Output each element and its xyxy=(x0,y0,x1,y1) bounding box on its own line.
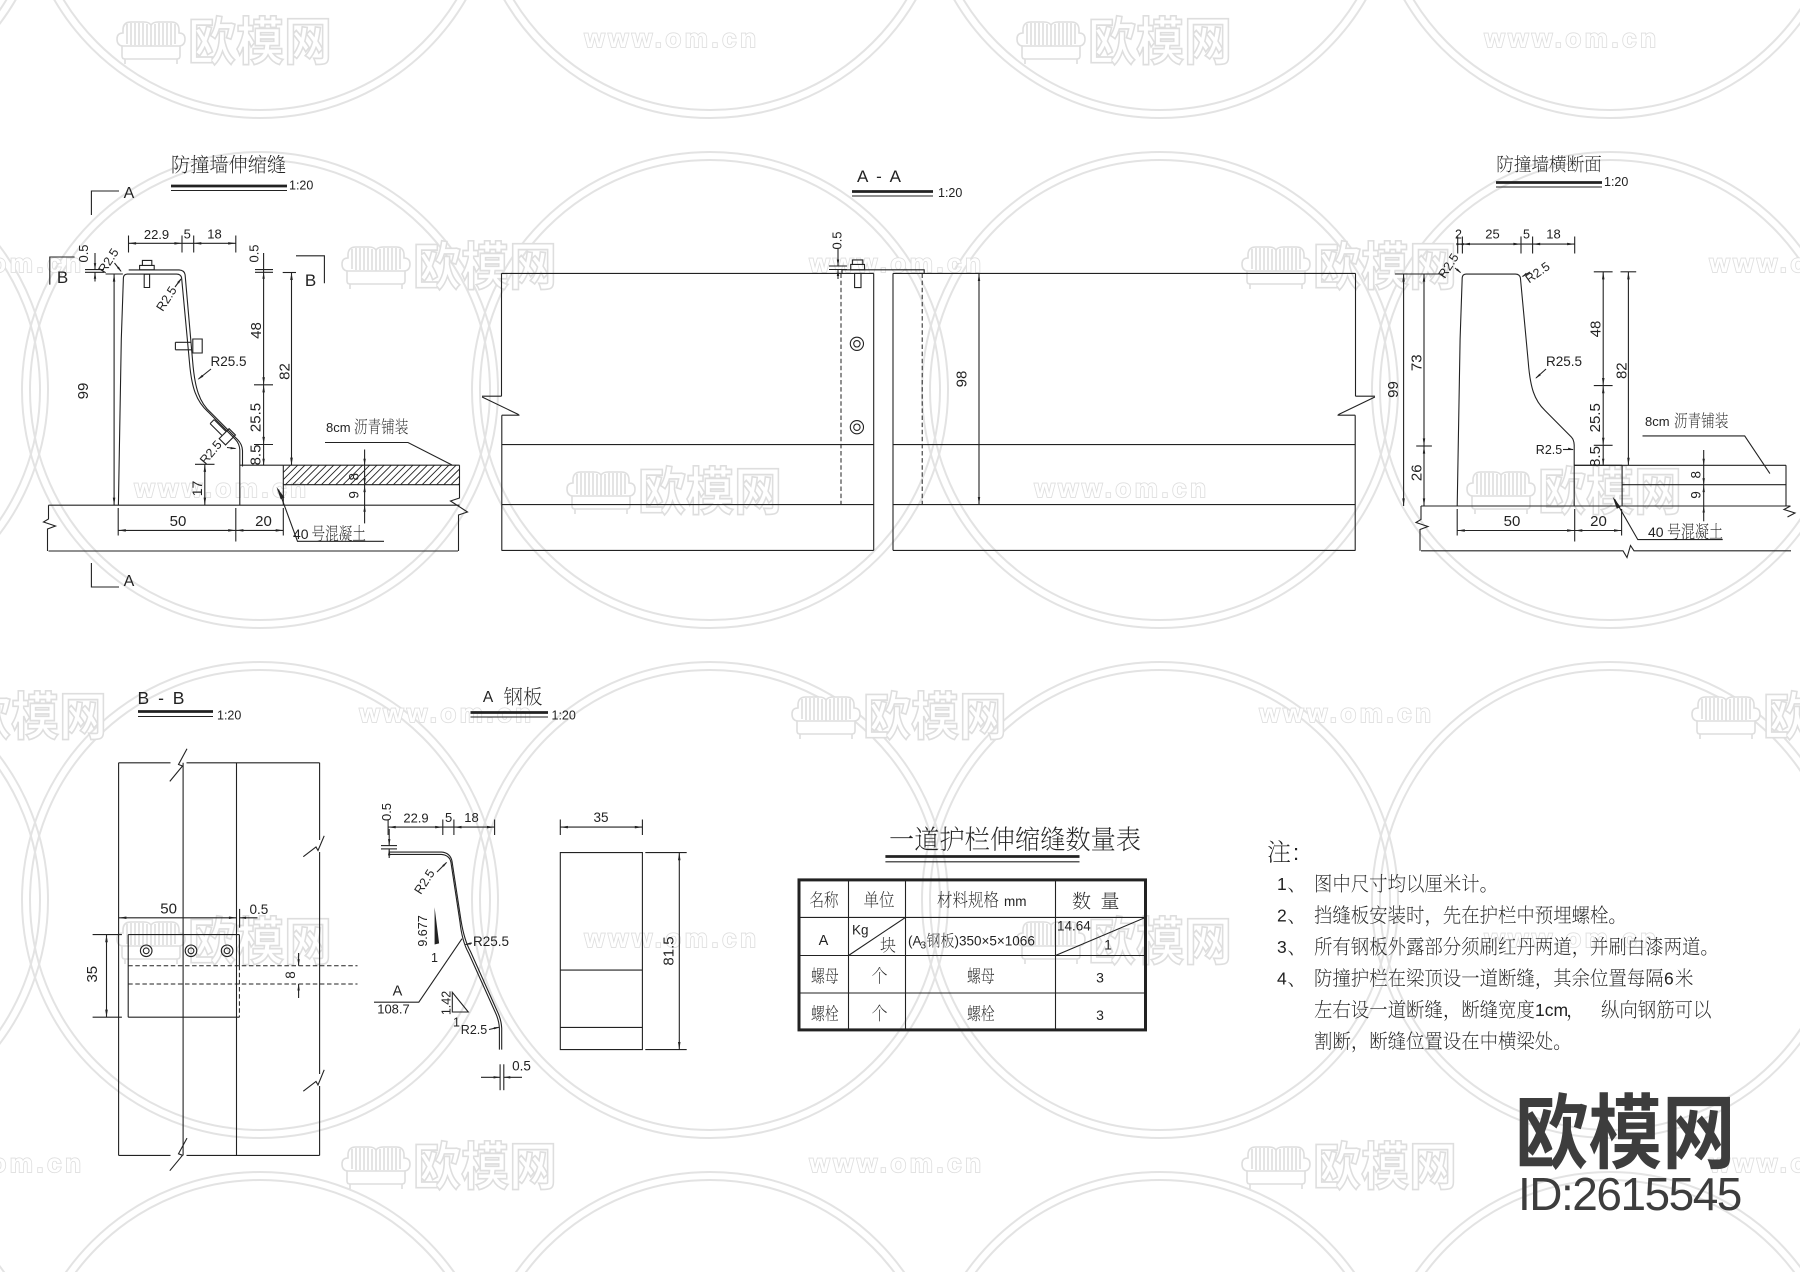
fig1 asphalt hatching xyxy=(283,465,459,485)
svg-text:48: 48 xyxy=(248,322,265,339)
fig3 dim 50/20 bottom xyxy=(1457,530,1621,532)
svg-text:98: 98 xyxy=(953,371,970,388)
svg-text:A: A xyxy=(819,933,829,949)
fig1 section mark B right xyxy=(296,256,324,283)
fig5 dim 0.5 bottom xyxy=(499,1064,501,1090)
svg-text:17: 17 xyxy=(189,481,205,497)
svg-text:0.5: 0.5 xyxy=(379,803,394,821)
fig1 title 防撞墙伸缩缝 xyxy=(173,155,286,174)
fig5 dim 81.5 xyxy=(678,853,680,1050)
svg-text:9.677: 9.677 xyxy=(416,915,430,946)
fig4 hidden deck edges (dashed) xyxy=(128,965,357,967)
fig2 hidden anchor plate edges (dashed) xyxy=(840,274,842,505)
svg-text:1:20: 1:20 xyxy=(938,186,962,200)
svg-text:ID:2615545: ID:2615545 xyxy=(1518,1168,1741,1220)
fig3 title 防撞墙横断面 xyxy=(1498,155,1601,172)
svg-text:8.5: 8.5 xyxy=(247,445,264,466)
note 4 line 3 xyxy=(1315,1031,1559,1052)
svg-text:3: 3 xyxy=(921,941,927,952)
table row 螺母 xyxy=(811,968,838,984)
svg-text:9: 9 xyxy=(1689,491,1704,499)
svg-text:0.5: 0.5 xyxy=(250,902,269,917)
svg-text:20: 20 xyxy=(255,513,272,530)
svg-text:www.om.cn: www.om.cn xyxy=(1259,698,1435,728)
fig4 steel plate xyxy=(128,935,239,1018)
fig1 dim 8.5 xyxy=(263,445,265,466)
fig1 wall step ledge xyxy=(240,464,283,466)
svg-text:www.om.cn: www.om.cn xyxy=(0,1148,85,1178)
svg-text:1: 1 xyxy=(1104,938,1112,953)
fig1 dim 25.5 xyxy=(263,385,265,445)
svg-text:8cm: 8cm xyxy=(326,420,351,435)
fig4 dim 35 xyxy=(106,935,108,1018)
svg-text:R2.5: R2.5 xyxy=(1536,443,1562,457)
svg-text:(A: (A xyxy=(908,934,922,949)
svg-text:18: 18 xyxy=(1546,227,1560,242)
fig1 section mark A bottom xyxy=(91,563,119,587)
fig5 dim 22.9/5/18 xyxy=(388,826,495,828)
svg-text:www.om.cn: www.om.cn xyxy=(809,1148,985,1178)
fig3 dim 73 xyxy=(1423,274,1425,446)
svg-text:73: 73 xyxy=(1408,354,1425,371)
svg-text:A: A xyxy=(124,185,135,202)
fig4 break right lower xyxy=(303,1070,324,1091)
fig2 joint cover plate xyxy=(842,270,924,274)
fig1 section mark A top xyxy=(91,191,119,215)
svg-text:A - A: A - A xyxy=(857,167,903,186)
svg-text:8: 8 xyxy=(346,473,361,481)
fig1 dim 22.9/5/18 top xyxy=(129,242,236,244)
svg-text:mm: mm xyxy=(1004,894,1027,909)
fig1 dim 82 xyxy=(291,272,293,465)
notes header 注: xyxy=(1268,840,1290,863)
fig2 dim 98 xyxy=(978,273,980,504)
svg-text:26: 26 xyxy=(1408,464,1425,481)
svg-text:B: B xyxy=(57,268,68,287)
svg-text:5: 5 xyxy=(445,810,452,825)
fig5 bent plate profile (double line) xyxy=(389,852,502,1050)
svg-text:1.42: 1.42 xyxy=(439,991,453,1015)
svg-text:www.om.cn: www.om.cn xyxy=(1484,23,1660,53)
fig1 steel cover plate (section) xyxy=(129,270,243,467)
svg-text:3: 3 xyxy=(1277,937,1287,957)
svg-text:1:20: 1:20 xyxy=(1604,175,1628,189)
svg-text:20: 20 xyxy=(1590,513,1607,530)
fig1 section mark B left xyxy=(50,257,75,285)
svg-text:3: 3 xyxy=(1096,970,1104,986)
table diagonal splits xyxy=(849,917,906,955)
fig5 slope mark 9.677:1 xyxy=(435,907,440,944)
svg-text:108.7: 108.7 xyxy=(377,1002,410,1017)
svg-text:6: 6 xyxy=(1664,969,1674,989)
svg-text::: : xyxy=(1293,840,1299,865)
fig1 anchor bolt lower (on slope) xyxy=(207,417,235,445)
fig3 wall outline xyxy=(1457,274,1574,506)
svg-text:8.5: 8.5 xyxy=(1587,446,1604,467)
svg-text:25.5: 25.5 xyxy=(1587,403,1604,432)
svg-text:50: 50 xyxy=(160,901,177,918)
fig2 deck left block xyxy=(502,273,874,550)
fig1 dim 99 xyxy=(113,274,115,505)
svg-text:1:20: 1:20 xyxy=(289,179,313,193)
svg-text:B - B: B - B xyxy=(138,688,187,708)
fig1 anchor bolt middle xyxy=(175,339,202,353)
fig5 plate front view xyxy=(560,853,642,1050)
svg-text:0.5: 0.5 xyxy=(830,231,845,249)
fig2 bolt at joint xyxy=(851,260,865,288)
svg-text:48: 48 xyxy=(1588,321,1605,338)
fig3 dim 82 xyxy=(1627,272,1629,466)
fig4 break right upper xyxy=(303,836,324,857)
fig1 dim 17 xyxy=(204,464,206,505)
svg-text:5: 5 xyxy=(184,227,191,242)
svg-text:www.om.cn: www.om.cn xyxy=(1709,248,1800,278)
svg-text:www.om.cn: www.om.cn xyxy=(1034,473,1210,503)
svg-text:R25.5: R25.5 xyxy=(473,934,509,949)
svg-text:www.om.cn: www.om.cn xyxy=(0,248,85,278)
svg-text:40: 40 xyxy=(1648,524,1664,540)
svg-text:50: 50 xyxy=(170,513,187,530)
svg-text:0.5: 0.5 xyxy=(76,244,91,262)
svg-text:A: A xyxy=(483,689,494,706)
fig2 deck right block xyxy=(893,273,1356,550)
note 4 line 2 xyxy=(1315,1000,1534,1021)
fig3 dim 8/9 right xyxy=(1703,450,1705,521)
svg-text:5: 5 xyxy=(1523,228,1530,242)
svg-text:R25.5: R25.5 xyxy=(210,354,246,369)
svg-text:35: 35 xyxy=(84,966,101,983)
svg-text:25: 25 xyxy=(1485,227,1499,242)
svg-text:1: 1 xyxy=(1277,874,1287,894)
svg-text:8: 8 xyxy=(283,971,298,979)
svg-text:18: 18 xyxy=(207,227,221,242)
svg-text:A: A xyxy=(124,573,135,590)
fig4 break top xyxy=(170,749,187,782)
svg-text:0.5: 0.5 xyxy=(512,1059,531,1074)
svg-text:3: 3 xyxy=(1096,1007,1104,1023)
fig4 break bottom xyxy=(170,1138,187,1171)
fig1 dim 8/9 asphalt layers xyxy=(364,450,366,524)
fig1 anchor bolt top xyxy=(140,260,155,287)
svg-text:4: 4 xyxy=(1277,969,1287,989)
fig3 dim 26 xyxy=(1423,446,1425,506)
svg-text:14.64: 14.64 xyxy=(1057,919,1091,934)
fig1 wall concrete outline xyxy=(118,274,239,505)
svg-text:18: 18 xyxy=(464,810,478,825)
svg-text:R2.5: R2.5 xyxy=(461,1023,487,1037)
fig3 asphalt pavement xyxy=(1574,465,1786,506)
svg-text:A: A xyxy=(393,984,403,1000)
fig1 dim 48 xyxy=(263,253,265,385)
table grid xyxy=(799,880,1146,1030)
svg-text:Kg: Kg xyxy=(852,923,869,938)
site logo 欧模网 xyxy=(1520,1092,1730,1170)
fig4 dim 50 xyxy=(119,917,237,919)
fig4 wall plan outline xyxy=(119,763,320,1156)
svg-text:81.5: 81.5 xyxy=(660,936,677,965)
fig4 wall joint lines xyxy=(182,763,184,1156)
svg-text:82: 82 xyxy=(1613,362,1630,379)
fig3 dim 2/25/5/18 top xyxy=(1458,243,1575,245)
fig3 dim 8.5 xyxy=(1602,445,1604,465)
fig1 asphalt pavement block xyxy=(283,465,459,505)
svg-text:9: 9 xyxy=(346,491,361,499)
fig1 concrete base xyxy=(49,504,460,506)
svg-text:8cm: 8cm xyxy=(1645,414,1670,429)
fig3 concrete base xyxy=(1421,505,1791,507)
svg-text:www.om.cn: www.om.cn xyxy=(584,23,760,53)
fig3 dim 25.5 xyxy=(1602,386,1604,446)
svg-text:1:20: 1:20 xyxy=(217,709,241,723)
svg-text:99: 99 xyxy=(1385,381,1402,398)
fig5 slope mark 1.42:1 xyxy=(452,992,468,1012)
svg-text:1: 1 xyxy=(431,951,438,965)
svg-text:R25.5: R25.5 xyxy=(1546,354,1582,369)
svg-text:25.5: 25.5 xyxy=(247,403,264,432)
svg-text:1:20: 1:20 xyxy=(552,709,576,723)
fig3 dim 99 xyxy=(1403,274,1405,506)
svg-text:1: 1 xyxy=(453,1016,460,1030)
fig4 dim 0.5 xyxy=(239,909,241,928)
svg-text:82: 82 xyxy=(276,363,293,380)
table header row xyxy=(810,891,838,908)
svg-text:50: 50 xyxy=(1504,513,1521,530)
svg-text:0.5: 0.5 xyxy=(246,244,261,262)
svg-text:2: 2 xyxy=(1277,906,1287,926)
svg-text:22.9: 22.9 xyxy=(403,811,428,826)
fig3 dim 48 xyxy=(1602,272,1604,386)
table row 螺栓 xyxy=(811,1005,838,1021)
fig1 dim 50/20 bottom xyxy=(118,529,283,531)
svg-text:35: 35 xyxy=(593,810,608,825)
fig2 anchor sleeve circles xyxy=(850,337,863,350)
svg-text:)350×5×1066: )350×5×1066 xyxy=(955,934,1035,949)
svg-text:8: 8 xyxy=(1689,471,1704,479)
fig4 dim 8 xyxy=(298,953,300,966)
table title 一道护栏伸缩缝数量表 xyxy=(890,826,1140,851)
svg-text:2: 2 xyxy=(1455,228,1462,242)
svg-text:22.9: 22.9 xyxy=(144,227,169,242)
fig4 bolts (3) xyxy=(140,945,152,957)
fig3 wall step ledge xyxy=(1574,464,1622,466)
svg-text:99: 99 xyxy=(75,383,92,400)
svg-text:1cm: 1cm xyxy=(1535,1000,1568,1020)
svg-text:B: B xyxy=(305,271,316,290)
fig5 dim 35 xyxy=(560,826,642,828)
